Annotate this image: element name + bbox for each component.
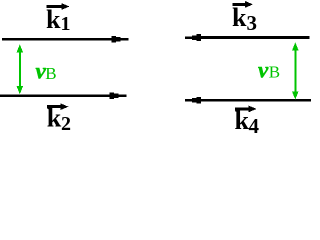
svg-text:4: 4 [249,114,260,138]
svg-text:2: 2 [61,113,71,135]
svg-text:1: 1 [61,13,71,35]
svg-text:k: k [232,3,247,32]
svg-text:k: k [235,106,250,135]
svg-text:B: B [269,63,280,82]
svg-text:B: B [45,64,56,83]
svg-text:ν: ν [258,58,269,83]
svg-text:3: 3 [247,11,258,35]
svg-text:k: k [47,104,62,133]
svg-text:k: k [46,5,61,34]
